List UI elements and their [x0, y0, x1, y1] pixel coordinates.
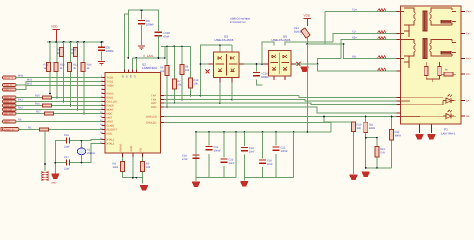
svg-text:25MHz: 25MHz — [87, 152, 96, 155]
svg-text:USBLC6-4SC6: USBLC6-4SC6 — [215, 38, 234, 42]
port MDINT (oval) — [3, 112, 17, 116]
U2 top pin stubs — [124, 70, 136, 73]
resistor R22 — [390, 116, 402, 168]
transformer T2 primary winding — [404, 40, 416, 69]
wire RXN staircase — [164, 107, 399, 113]
svg-text:22pF: 22pF — [64, 145, 70, 148]
wire LED2 net — [164, 123, 331, 133]
svg-text:RXD1: RXD1 — [107, 97, 114, 100]
resistor R19 (pull-up) — [189, 78, 199, 88]
junction dots on V_LAN rail — [127, 57, 166, 59]
wire TXN staircase — [232, 100, 399, 102]
svg-text:100nF: 100nF — [106, 49, 114, 53]
svg-text:47nF: 47nF — [182, 158, 188, 161]
svg-text:RD+: RD+ — [352, 37, 358, 40]
junction dots R bank — [365, 167, 378, 169]
svg-text:USBLC6-4SC6: USBLC6-4SC6 — [272, 38, 291, 42]
choke T2b core — [441, 51, 452, 55]
port RXER (oval) — [3, 108, 17, 112]
capacitor C20 — [259, 160, 273, 167]
wire T2 to pins — [399, 40, 456, 59]
svg-text:10k: 10k — [177, 84, 182, 87]
internal termination resistors — [424, 62, 456, 82]
resistor R4 (RBIAS) — [113, 157, 125, 178]
junction dots crystal — [54, 140, 82, 164]
wire U3 feed vertical — [200, 45, 232, 95]
svg-text:LINKLED: LINKLED — [146, 116, 157, 119]
svg-text:49R9: 49R9 — [369, 127, 376, 130]
P1 bottom pin stubs — [419, 124, 431, 133]
svg-text:VDD: VDD — [304, 14, 311, 18]
wire TXEN net — [16, 83, 102, 90]
U2 right pin names — [146, 95, 157, 125]
wire RXD1 net — [16, 99, 102, 102]
U2 right pin stubs — [161, 96, 165, 123]
svg-text:47uF: 47uF — [163, 35, 170, 39]
wire NRST net — [16, 119, 102, 122]
svg-text:CRS_DV: CRS_DV — [107, 101, 118, 104]
svg-text:VDD: VDD — [51, 25, 58, 29]
capacitor C21 — [206, 146, 222, 153]
resistor R15 (inline, RXD0) — [16, 95, 102, 100]
wire cap rail — [196, 131, 331, 133]
resistor R6 (pull-up) — [160, 66, 169, 76]
port CRS (oval) — [3, 104, 17, 108]
wire cap cluster A verticals — [196, 132, 236, 181]
P1 left pin stubs — [397, 12, 401, 117]
U2 bottom pin stubs — [123, 153, 143, 157]
svg-text:MDIO: MDIO — [107, 109, 114, 112]
port TXEN (oval) — [3, 88, 17, 92]
svg-text:RS: RS — [18, 119, 22, 122]
svg-text:10nF: 10nF — [267, 163, 273, 166]
svg-text:TD+: TD+ — [352, 9, 357, 12]
svg-text:RXD_0: RXD_0 — [4, 97, 12, 100]
svg-text:R16: R16 — [35, 103, 40, 106]
wire TXP staircase to P1 LED row — [299, 96, 399, 98]
svg-text:MDC: MDC — [107, 113, 113, 116]
svg-text:RX+: RX+ — [466, 58, 472, 61]
wire top supply loop — [128, 10, 158, 58]
resistor R20 (LED series) — [352, 122, 362, 174]
wire R bank ground bus — [366, 167, 392, 169]
capacitor C14 — [253, 63, 269, 85]
svg-text:C17: C17 — [64, 156, 69, 159]
svg-text:RBIAS: RBIAS — [120, 143, 123, 151]
svg-text:10nF: 10nF — [249, 151, 255, 154]
wire MDIO net — [16, 75, 102, 78]
svg-text:75R: 75R — [380, 152, 385, 155]
svg-text:TXD1: TXD1 — [107, 81, 114, 84]
svg-text:RXD_1: RXD_1 — [4, 101, 12, 104]
svg-text:LA: LA — [466, 100, 469, 103]
wire V_LAN rail — [132, 57, 166, 59]
svg-text:in first HW rev: in first HW rev — [230, 21, 246, 24]
resistor R10 (row1) — [71, 48, 78, 57]
port CANA_B (wide oval, sheet entry) — [1, 127, 19, 131]
capacitor C17 — [64, 156, 70, 170]
capacitor C10 (bulk) — [155, 31, 171, 58]
ground for C9 — [138, 46, 145, 50]
transformer T1 primary winding — [404, 8, 416, 37]
diode D1 (TVS on CAN line) — [42, 131, 49, 181]
svg-text:RX1: RX1 — [18, 99, 23, 102]
power port VDD (FB1) — [304, 14, 312, 27]
transformer T1 secondary — [430, 8, 453, 25]
svg-text:CANA_B: CANA_B — [4, 129, 14, 132]
svg-text:LAN8742A: LAN8742A — [142, 66, 158, 70]
U2 left pin names — [107, 77, 118, 146]
svg-text:V_LAN: V_LAN — [143, 54, 153, 58]
ground cap cluster B — [240, 181, 248, 186]
svg-text:RXP: RXP — [151, 102, 157, 105]
no-ERC cross U5 right — [297, 62, 301, 66]
svg-text:100nF: 100nF — [261, 75, 269, 79]
LED2 symbol in P1 — [443, 110, 454, 119]
svg-text:XTAL1: XTAL1 — [107, 139, 115, 142]
svg-text:TX+: TX+ — [466, 11, 471, 14]
ground crystal — [51, 174, 59, 185]
IC U2 PHY body — [105, 73, 161, 154]
svg-text:nINT: nINT — [107, 117, 113, 120]
sheet background — [0, 0, 474, 192]
svg-text:22pF: 22pF — [64, 167, 70, 170]
ground P1 shield 2 — [427, 134, 435, 139]
svg-text:TXEN: TXEN — [107, 85, 114, 88]
svg-text:nRST: nRST — [4, 121, 11, 124]
ground under U2 — [140, 185, 148, 190]
wire VDD feed to magnetics CT — [307, 12, 325, 133]
crystal X1 — [77, 148, 96, 155]
junction dots pull-up landings — [166, 95, 191, 108]
junction dots under U2 — [132, 177, 137, 179]
svg-text:100nF: 100nF — [146, 23, 154, 27]
svg-text:LB: LB — [466, 115, 469, 118]
wire RXER net — [16, 107, 102, 110]
wire TX+ to P1 — [325, 9, 399, 12]
svg-text:R17: R17 — [36, 111, 41, 114]
power port VDD (top-left) — [51, 25, 60, 43]
IC U5 body (USBLC6) — [264, 51, 297, 81]
junction dot FB1 out — [306, 43, 308, 45]
svg-text:C16: C16 — [64, 134, 69, 137]
ferrite bead FB1 — [294, 27, 310, 44]
capacitor C18 — [182, 132, 200, 161]
port RXD0 (oval) — [3, 96, 17, 100]
port NRST (oval) — [3, 120, 17, 124]
svg-text:REGOFF: REGOFF — [107, 129, 118, 132]
resistor R7 (pull-up) — [172, 79, 182, 89]
svg-text:100nF: 100nF — [214, 150, 222, 153]
svg-text:RXD0: RXD0 — [107, 93, 114, 96]
svg-text:nRST: nRST — [107, 121, 114, 124]
svg-text:RX_ER: RX_ER — [4, 109, 12, 112]
junction dots on TX/RX nets — [200, 95, 233, 104]
wire RXP staircase — [220, 103, 399, 105]
IC U3 body (USBLC6) — [209, 52, 245, 83]
wire RD- long — [318, 64, 399, 71]
resistor R5 (PD pull) — [141, 157, 151, 178]
wire pull-up rail (V_LAN) — [161, 46, 191, 58]
P1 internal LED wiring — [401, 97, 457, 116]
wire U2 top pins — [124, 14, 136, 73]
wire TXP net (U2 to U3) — [164, 95, 299, 97]
resistor R9 (row1) — [57, 48, 64, 57]
svg-text:330: 330 — [357, 127, 362, 130]
svg-text:XTAL2: XTAL2 — [107, 143, 115, 146]
capacitor C8 (decoupling, left of U2 top) — [98, 41, 114, 61]
svg-text:10nF: 10nF — [229, 162, 235, 165]
wire U5 top drops into nets — [262, 42, 297, 64]
no-ERC cross U3 left — [206, 70, 210, 74]
svg-text:RXER: RXER — [107, 105, 114, 108]
svg-text:TD-: TD- — [352, 31, 356, 34]
resistor R8 (pull-up) — [180, 65, 190, 75]
svg-text:TXD0: TXD0 — [107, 77, 114, 80]
svg-text:RX2: RX2 — [18, 107, 23, 110]
svg-text:MX2: MX2 — [27, 83, 33, 86]
svg-text:RC: RC — [28, 127, 32, 130]
resistor R14 (row2) — [81, 63, 92, 72]
svg-text:1k5: 1k5 — [160, 70, 165, 73]
capacitor C19 — [241, 147, 255, 154]
ground R20 — [350, 175, 358, 180]
port MDIO (oval) — [3, 76, 17, 80]
svg-text:Rt: Rt — [445, 69, 448, 72]
resistor R13 (row2) — [68, 63, 79, 72]
svg-text:TXD_0: TXD_0 — [4, 84, 12, 87]
svg-text:49R9: 49R9 — [395, 135, 402, 138]
resistor R21 — [364, 116, 376, 168]
svg-text:LAN-TRA-1: LAN-TRA-1 — [441, 132, 456, 136]
svg-text:TXD_1: TXD_1 — [4, 89, 12, 92]
svg-text:ISOL: ISOL — [107, 133, 113, 136]
resistor R16 (inline, CRS) — [16, 103, 102, 108]
U2 left pin numbers — [100, 75, 103, 144]
wire TX- to P1 — [297, 31, 399, 42]
wire RXP net — [164, 102, 220, 104]
resistor R12 (row2) — [54, 63, 65, 72]
svg-text:CLKIN: CLKIN — [107, 125, 115, 128]
transformer T1 core — [422, 11, 427, 32]
wire crystal frame — [55, 140, 101, 174]
svg-text:GND: GND — [130, 146, 133, 152]
resistor R11 (row2) — [44, 63, 51, 72]
wire LED1 net — [164, 116, 399, 118]
wire VDD pull-up bus — [47, 41, 104, 43]
P1 right pin stubs — [461, 12, 465, 117]
svg-text:SPDLED: SPDLED — [146, 122, 157, 125]
wire MDC net — [16, 79, 102, 85]
svg-text:MX1: MX1 — [27, 79, 33, 82]
svg-text:RXN: RXN — [151, 106, 157, 109]
junction dots on pull-up bus — [49, 41, 85, 43]
port RXD1 (oval) — [3, 100, 17, 104]
ground P1 shield 1 — [415, 134, 423, 139]
wire RX+ to P1 — [296, 37, 398, 65]
resistor R17 (inline, MDINT) — [16, 111, 102, 116]
junction dot U5 left — [261, 63, 263, 65]
P1 right pin labels — [466, 11, 472, 119]
ground R bank — [362, 172, 370, 177]
U2 top pin numbers — [122, 75, 137, 78]
svg-text:10k: 10k — [146, 166, 151, 169]
transformer T2 secondary — [430, 40, 453, 57]
svg-text:10k: 10k — [194, 83, 199, 86]
wire LED1 drop to R bank — [324, 117, 354, 123]
wire U3 bottom drops — [220, 83, 232, 104]
svg-text:BLM18: BLM18 — [294, 30, 303, 33]
svg-text:10k: 10k — [185, 69, 190, 72]
wire U3-U5 link — [244, 63, 268, 65]
wire pull-up drops — [167, 46, 191, 107]
svg-text:TXP: TXP — [151, 95, 156, 98]
junction dots where pull-downs meet signal wires — [49, 93, 85, 115]
ground stub U5 — [301, 67, 309, 72]
LED1 symbol in P1 — [443, 95, 454, 104]
wire under U2 — [123, 157, 143, 184]
U2 left pin stubs — [102, 78, 106, 144]
svg-text:100nF: 100nF — [281, 150, 289, 153]
port MDC (oval) — [3, 83, 17, 87]
transformer T2 core — [422, 38, 427, 59]
svg-text:RX-: RX- — [466, 73, 471, 76]
svg-text:MX0: MX0 — [18, 75, 24, 78]
junction dots pull-up rail — [166, 45, 183, 47]
IC P1 magjack body — [401, 6, 462, 124]
note text — [230, 18, 251, 25]
U2 bottom pin names — [120, 143, 143, 151]
resistor R23 — [365, 137, 386, 168]
wire cap cluster B verticals — [244, 132, 293, 181]
net label squiggles near P1 — [378, 9, 386, 71]
svg-text:TX-: TX- — [466, 33, 470, 36]
wire T1 to pins — [399, 12, 456, 34]
capacitor C9 — [138, 9, 154, 45]
svg-text:GND: GND — [51, 182, 57, 185]
ground for C8 — [98, 62, 105, 66]
wire TXN net — [164, 99, 232, 101]
svg-text:12k1: 12k1 — [113, 166, 119, 169]
resistor R18 (inline, CANA_B) — [19, 127, 102, 132]
svg-text:MXJA_0: MXJA_0 — [4, 77, 14, 80]
svg-text:R15: R15 — [35, 95, 40, 98]
ground cap cluster A — [192, 182, 200, 187]
wire pull-down verticals — [50, 42, 84, 114]
svg-text:CRS_DV: CRS_DV — [4, 105, 14, 108]
capacitor C16 — [64, 134, 70, 148]
svg-text:MD_INT: MD_INT — [4, 113, 13, 116]
svg-text:PD: PD — [139, 148, 142, 152]
capacitor C22 — [273, 147, 289, 154]
junction dots cap rail — [195, 131, 308, 133]
wire CT2 to P1 — [325, 43, 399, 58]
capacitor C23 — [221, 159, 235, 166]
choke T1b core — [441, 20, 452, 24]
